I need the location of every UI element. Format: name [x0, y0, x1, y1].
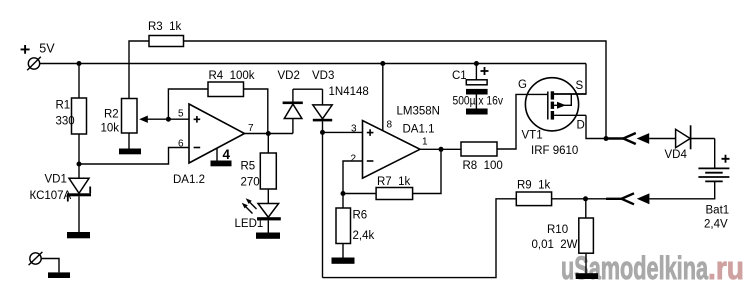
- wire R8 to gate: [497, 94, 548, 149]
- label 5V: [39, 41, 55, 55]
- svg-text:R5: R5: [241, 160, 256, 172]
- node VD1 / pin6 junction: [77, 162, 82, 167]
- svg-text:2,4V: 2,4V: [704, 219, 728, 231]
- ground under LED1: [256, 233, 280, 239]
- wire DA1.1 output: [420, 148, 461, 150]
- svg-text:3: 3: [351, 123, 357, 134]
- resistor R5: [267, 134, 269, 154]
- svg-text:D: D: [577, 120, 585, 132]
- minus input mark DA1.1: [367, 160, 374, 162]
- svg-text:.ru: .ru: [708, 250, 744, 286]
- svg-text:DA1.1: DA1.1: [403, 124, 435, 136]
- battery Bat1: [698, 168, 729, 181]
- pin 4 lead: [216, 148, 218, 160]
- svg-text:КС107А: КС107А: [30, 190, 72, 202]
- terminal X4 (common, bottom left): [29, 252, 59, 273]
- svg-text:4: 4: [223, 147, 231, 162]
- resistor R1: [78, 64, 80, 99]
- label R5 270: [241, 160, 260, 188]
- svg-text:270: 270: [241, 176, 260, 188]
- svg-text:G: G: [518, 79, 527, 91]
- diode VD3: [313, 89, 332, 132]
- wiper arrow of R2: [139, 116, 148, 123]
- wire VD1 node to pin 6: [79, 148, 189, 165]
- node DA1 pin8 tap: [380, 61, 385, 66]
- plus input mark DA1.1: [367, 129, 374, 136]
- node output / R7 feedback: [439, 147, 444, 152]
- svg-text:1N4148: 1N4148: [329, 86, 369, 98]
- svg-text:LM358N: LM358N: [397, 105, 440, 117]
- wire R3 right lead to drain node: [184, 41, 607, 139]
- resistor R3: [149, 36, 184, 47]
- wire pin3: [323, 131, 363, 133]
- capacitor C1: [466, 64, 488, 109]
- resistor R10: [585, 199, 587, 218]
- ground under R2: [119, 149, 141, 155]
- svg-text:10k: 10k: [101, 122, 120, 134]
- svg-text:7: 7: [248, 123, 254, 134]
- svg-text:R9 1k: R9 1k: [517, 180, 550, 192]
- diode VD2: [283, 89, 303, 133]
- label R2 10k: [101, 109, 120, 135]
- label R6 2,4k: [353, 210, 375, 243]
- minus input mark DA1.2: [194, 147, 201, 149]
- svg-text:VD4: VD4: [665, 149, 688, 161]
- svg-text:R6: R6: [353, 210, 368, 222]
- ground under R6: [332, 258, 355, 264]
- plus mark 5V: [21, 45, 30, 54]
- node R5 tap: [266, 131, 271, 136]
- plus input mark DA1.2: [194, 116, 201, 123]
- op-amp DA1.2: [189, 104, 245, 163]
- label R1 330: [56, 100, 75, 128]
- svg-text:R2: R2: [104, 109, 119, 121]
- svg-text:2,4k: 2,4k: [353, 230, 375, 242]
- svg-text:DA1.2: DA1.2: [173, 174, 205, 186]
- svg-text:Bat1: Bat1: [706, 205, 730, 217]
- ground under VD1: [67, 232, 90, 238]
- ground under C1: [466, 109, 488, 115]
- node C1 tap: [474, 61, 479, 66]
- op-amp DA1.1: [363, 121, 421, 179]
- wire rail corner down to VT1 source: [554, 64, 586, 95]
- wire DA1.2 output: [245, 133, 293, 135]
- node drain / R3 junction: [604, 136, 609, 141]
- zener VD1: [67, 164, 91, 232]
- svg-text:R8 100: R8 100: [463, 160, 503, 172]
- terminal X1 (+5V input): [27, 57, 41, 71]
- svg-text:uSamodelkina: uSamodelkina: [561, 250, 708, 286]
- node R9 R10 junction: [583, 196, 588, 201]
- watermark uSamodelkina.ru: [561, 250, 744, 286]
- svg-text:330: 330: [56, 116, 75, 128]
- wire R4 left lead: [168, 89, 208, 119]
- wire VD2-VD3 bridge: [293, 88, 323, 90]
- wire bottom rail: [323, 199, 517, 278]
- resistor R8: [461, 142, 497, 156]
- svg-text:VD1: VD1: [45, 173, 67, 185]
- svg-text:VD2: VD2: [278, 70, 300, 82]
- LED1: [242, 198, 281, 232]
- ground at terminal X4: [48, 272, 70, 278]
- svg-text:LED1: LED1: [235, 218, 264, 230]
- svg-text:5V: 5V: [39, 41, 55, 55]
- svg-text:R10: R10: [547, 224, 568, 236]
- svg-text:1: 1: [422, 137, 428, 148]
- svg-text:S: S: [576, 80, 584, 92]
- resistor R2 (trimmer): [122, 99, 138, 134]
- wire output down to R7: [413, 149, 441, 193]
- svg-text:8: 8: [387, 119, 393, 130]
- wire pin3 node down to bottom rail: [322, 132, 324, 277]
- wire battery minus return: [649, 181, 714, 198]
- transistor VT1 (IRF9610): [525, 78, 586, 131]
- connector X3 (plug-socket battery -): [586, 193, 650, 204]
- plus mark C1: [481, 67, 489, 75]
- node pin5 / R4 junction: [166, 117, 171, 122]
- resistor R6: [336, 208, 351, 244]
- svg-text:VT1: VT1: [522, 129, 543, 141]
- svg-text:R1: R1: [56, 100, 71, 112]
- pin 8 lead from rail: [382, 64, 384, 132]
- wire +5V rail: [40, 63, 586, 65]
- svg-text:R7 1k: R7 1k: [377, 176, 410, 188]
- node R7 left junction: [341, 191, 346, 196]
- node DA1.1 pin3 junction: [320, 130, 325, 135]
- svg-text:500µ x 16v: 500µ x 16v: [453, 95, 504, 107]
- plus mark battery: [722, 155, 730, 163]
- wire pin 2: [343, 161, 363, 208]
- svg-text:VD3: VD3: [312, 70, 334, 82]
- resistor R9: [516, 192, 551, 206]
- resistor R4: [208, 82, 244, 97]
- connector X2 (plug-socket to battery +): [606, 133, 676, 144]
- svg-text:C1: C1: [452, 70, 467, 82]
- svg-text:0,01 2W: 0,01 2W: [532, 239, 578, 251]
- wire R3 left lead to R2: [129, 41, 149, 99]
- svg-text:R3 1k: R3 1k: [148, 21, 181, 33]
- wire VT1 drain: [586, 115, 606, 138]
- node R1 tap: [77, 61, 82, 66]
- ground under R10: [576, 273, 598, 279]
- ground under pin 4: [211, 161, 232, 167]
- svg-text:2: 2: [351, 154, 357, 165]
- svg-text:IRF 9610: IRF 9610: [531, 145, 578, 157]
- svg-text:5: 5: [178, 109, 184, 120]
- svg-text:R4 100k: R4 100k: [209, 70, 255, 82]
- diode VD4: [676, 125, 715, 149]
- wire R4 right lead to output node: [244, 89, 268, 134]
- resistor R7: [376, 188, 413, 200]
- wire VD4 to battery: [714, 139, 716, 169]
- wire wiper to DA1.2 pin5: [147, 118, 189, 120]
